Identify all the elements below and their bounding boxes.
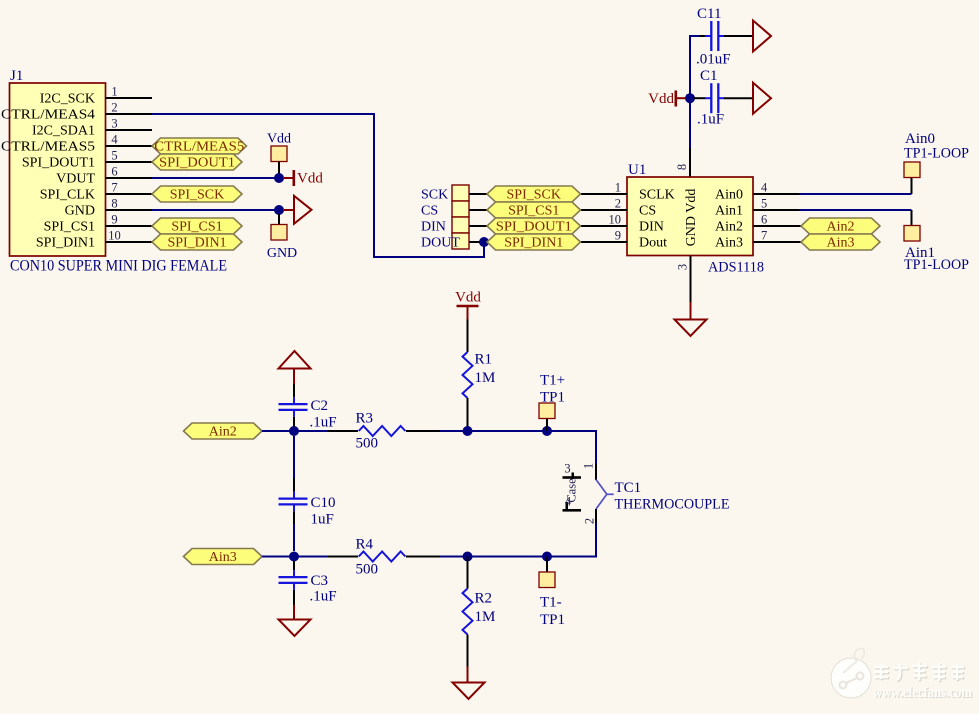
svg-text:U1: U1 — [628, 162, 646, 178]
svg-text:SPI_DOUT1: SPI_DOUT1 — [22, 156, 95, 171]
port SPI_DOUT1 (J1) — [152, 154, 242, 171]
svg-text:R4: R4 — [356, 537, 374, 553]
svg-text:Ain2: Ain2 — [715, 220, 743, 235]
svg-text:1M: 1M — [475, 609, 496, 625]
svg-text:3: 3 — [111, 117, 117, 131]
svg-text:DIN: DIN — [421, 220, 446, 235]
svg-text:4: 4 — [111, 133, 118, 147]
port SPI_SCK (U1) — [487, 186, 581, 203]
J1 pin 7 SPI_CLK — [40, 181, 152, 203]
capacitor C10 — [279, 436, 336, 551]
svg-text:1M: 1M — [475, 370, 496, 386]
svg-text:.1uF: .1uF — [697, 112, 724, 128]
U1 pin 9 Dout — [581, 229, 667, 251]
svg-text:9: 9 — [615, 229, 621, 243]
svg-text:SPI_CS1: SPI_CS1 — [171, 220, 222, 235]
svg-text:GND: GND — [267, 246, 297, 261]
U1 pin 4 Ain0 — [715, 181, 799, 203]
svg-text:THERMOCOUPLE: THERMOCOUPLE — [615, 497, 730, 513]
header pad DIN — [421, 217, 487, 235]
svg-text:SPI_DIN1: SPI_DIN1 — [504, 236, 563, 251]
svg-text:DIN: DIN — [639, 220, 664, 235]
capacitor C1 — [694, 68, 753, 128]
svg-text:SPI_DIN1: SPI_DIN1 — [36, 236, 95, 251]
connector J1 designator — [10, 68, 23, 84]
U1 pin 3 GND — [676, 256, 691, 320]
svg-text:4: 4 — [565, 495, 572, 509]
svg-text:SCLK: SCLK — [639, 188, 675, 203]
wire U1 pin5 to TP Ain1 — [799, 210, 912, 226]
wire Ain3 row — [262, 556, 597, 558]
port SPI_DIN1 (U1) — [487, 234, 581, 251]
power port triangle at C11 — [753, 21, 771, 52]
svg-text:DOUT: DOUT — [421, 236, 460, 251]
J1 pin 1 I2C_SCK — [40, 85, 152, 107]
svg-text:I2C_SCK: I2C_SCK — [40, 92, 95, 107]
svg-text:Ain3: Ain3 — [827, 236, 855, 251]
resistor R2 1M — [463, 557, 496, 683]
header pad SCK — [421, 185, 487, 203]
svg-text:Vdd: Vdd — [648, 91, 674, 107]
svg-text:Ain3: Ain3 — [715, 236, 743, 251]
resistor R4 500 — [328, 537, 440, 578]
port Ain3 (left) — [184, 549, 263, 566]
svg-text:R2: R2 — [475, 591, 493, 607]
svg-text:2: 2 — [111, 101, 117, 115]
svg-text:3: 3 — [676, 264, 690, 270]
port SPI_DOUT1 (U1) — [487, 218, 581, 235]
svg-text:500: 500 — [356, 562, 379, 578]
U1 pin 7 Ain3 — [715, 229, 801, 251]
power port triangle at C1 — [753, 83, 771, 114]
svg-text:CS: CS — [639, 204, 656, 219]
svg-text:500: 500 — [356, 436, 379, 452]
ground symbol at R2 — [453, 683, 485, 700]
svg-text:10: 10 — [609, 213, 622, 227]
power port Vdd bar (J1) — [283, 170, 323, 187]
test point GND pad — [267, 214, 297, 261]
svg-text:Dout: Dout — [639, 236, 667, 251]
svg-text:SPI_SCK: SPI_SCK — [507, 188, 561, 203]
svg-text:SPI_CLK: SPI_CLK — [40, 188, 95, 203]
port SPI_CS1 (J1) — [152, 218, 242, 235]
svg-text:CON10 SUPER MINI DIG FEMALE: CON10 SUPER MINI DIG FEMALE — [10, 258, 227, 275]
junction T1+/Ain2 row — [542, 426, 552, 436]
svg-text:C3: C3 — [311, 573, 329, 589]
svg-text:Ain2: Ain2 — [827, 220, 855, 235]
junction node Vdd — [274, 173, 284, 183]
svg-text:Ain0: Ain0 — [715, 188, 743, 203]
test point T1+ TP1 — [539, 373, 565, 432]
wire Vdd vertical (C11 to U1 pin8) — [690, 36, 700, 148]
test point Ain1 TP1-LOOP — [904, 226, 969, 274]
J1 pin 3 I2C_SDA1 — [32, 117, 152, 139]
U1 pin 10 DIN — [581, 213, 664, 235]
port Ain2 (right) — [801, 218, 880, 235]
wire TC1 pin2 to Ain3 row — [595, 523, 597, 557]
svg-text:SPI_CS1: SPI_CS1 — [44, 220, 95, 235]
ground symbol at U1 pin3 — [675, 320, 707, 337]
J1 pin 5 SPI_DOUT1 — [22, 149, 152, 171]
J1 pin 4 CTRL/MEAS5 — [1, 133, 152, 155]
svg-text:7: 7 — [111, 181, 117, 195]
wire Ain2 row to TC1 pin1 — [596, 431, 597, 464]
svg-text:SCK: SCK — [421, 188, 448, 203]
svg-text:C2: C2 — [311, 398, 329, 414]
svg-text:.1uF: .1uF — [310, 589, 337, 605]
resistor R3 500 — [328, 411, 440, 452]
svg-text:Ain2: Ain2 — [209, 425, 237, 440]
U1 pin 6 Ain2 — [715, 213, 801, 235]
svg-text:1: 1 — [582, 463, 596, 469]
capacitor C11 — [696, 6, 753, 68]
test point Vdd pad — [267, 132, 291, 179]
svg-text:10: 10 — [108, 229, 121, 243]
junction node Vdd at C1 — [685, 93, 695, 103]
svg-text:J1: J1 — [10, 68, 23, 84]
svg-text:5: 5 — [761, 197, 767, 211]
port SPI_SCK (J1) — [152, 186, 242, 203]
svg-text:SPI_DOUT1: SPI_DOUT1 — [159, 156, 235, 171]
svg-text:SPI_DIN1: SPI_DIN1 — [167, 236, 226, 251]
J1 pin 9 SPI_CS1 — [44, 213, 152, 235]
capacitor C3 — [279, 561, 337, 620]
IC U1 designator — [628, 162, 646, 178]
svg-text:.01uF: .01uF — [696, 52, 731, 68]
svg-text:7: 7 — [761, 229, 767, 243]
port Ain3 (right) — [801, 234, 880, 251]
junction DOUT node — [479, 237, 489, 247]
svg-text:TC1: TC1 — [615, 480, 642, 496]
svg-text:TP1-LOOP: TP1-LOOP — [904, 146, 969, 162]
svg-text:T1+: T1+ — [540, 373, 565, 389]
port CTRL/MEAS5 (J1) — [152, 138, 247, 155]
header pad CS — [421, 201, 487, 219]
svg-text:.1uF: .1uF — [310, 415, 337, 431]
svg-text:TP1: TP1 — [540, 612, 565, 628]
U1 pin 1 SCLK — [581, 181, 675, 203]
junction T1-/Ain3 row — [542, 552, 552, 562]
svg-text:C1: C1 — [700, 68, 718, 84]
connector J1 body — [10, 83, 106, 256]
svg-text:TP1-LOOP: TP1-LOOP — [904, 257, 969, 273]
svg-text:CTRL/MEAS4: CTRL/MEAS4 — [1, 108, 95, 123]
svg-text:6: 6 — [761, 213, 767, 227]
J1 pin 10 SPI_DIN1 — [36, 229, 152, 251]
svg-text:Vdd: Vdd — [267, 132, 291, 147]
svg-text:Vdd: Vdd — [455, 290, 481, 306]
svg-text:2: 2 — [615, 197, 621, 211]
svg-text:C11: C11 — [697, 6, 721, 22]
wire J1 pin8 to GND node — [152, 209, 279, 211]
junction Ain3/C3 — [289, 552, 299, 562]
svg-text:2: 2 — [583, 518, 597, 524]
svg-text:GND: GND — [65, 204, 95, 219]
svg-text:3: 3 — [564, 462, 570, 476]
U1 pin 5 Ain1 — [715, 197, 799, 219]
J1 pin 2 CTRL/MEAS4 — [1, 101, 152, 123]
svg-text:R1: R1 — [475, 352, 493, 368]
svg-text:CTRL/MEAS5: CTRL/MEAS5 — [154, 140, 244, 155]
watermark elecfans logo — [831, 649, 972, 702]
power port arrow above C2 — [279, 351, 311, 384]
svg-text:I2C_SDA1: I2C_SDA1 — [32, 124, 95, 139]
wire Ain2 row — [262, 430, 597, 432]
U1 power pin names GND Vdd — [684, 189, 699, 247]
J1 pin 6 VDUT — [56, 165, 152, 187]
wire J1 pin2 to DOUT node — [152, 114, 484, 257]
ground symbol at C3 — [279, 620, 311, 637]
svg-text:9: 9 — [111, 213, 117, 227]
power port GND triangle (J1) — [283, 196, 312, 224]
svg-text:www.elecfans.com: www.elecfans.com — [873, 685, 972, 701]
svg-text:SPI_DOUT1: SPI_DOUT1 — [496, 220, 572, 235]
port SPI_DIN1 (J1) — [152, 234, 242, 251]
svg-text:Ain1: Ain1 — [715, 204, 743, 219]
svg-text:6: 6 — [111, 165, 117, 179]
IC U1 body — [627, 177, 753, 256]
svg-text:Ain3: Ain3 — [209, 550, 237, 565]
svg-text:VDUT: VDUT — [56, 172, 95, 187]
svg-text:8: 8 — [675, 164, 689, 170]
J1 description CON10 SUPER MINI DIG FEMALE — [10, 258, 227, 275]
junction R2/Ain3 row — [463, 552, 473, 562]
svg-text:1: 1 — [111, 85, 117, 99]
port SPI_CS1 (U1) — [487, 202, 581, 219]
header pad DOUT — [421, 233, 487, 251]
svg-text:CTRL/MEAS5: CTRL/MEAS5 — [1, 140, 95, 155]
svg-text:R3: R3 — [356, 411, 374, 427]
svg-text:SPI_SCK: SPI_SCK — [170, 188, 224, 203]
svg-text:4: 4 — [761, 181, 768, 195]
U1 part number ADS1118 — [708, 260, 764, 276]
svg-text:CS: CS — [421, 204, 438, 219]
U1 pin 2 CS — [581, 197, 656, 219]
U1 pin 8 Vdd — [675, 148, 690, 177]
svg-text:C10: C10 — [311, 495, 336, 511]
port Ain2 (left) — [184, 423, 263, 440]
test point T1- TP1 — [539, 557, 565, 629]
wire U1 pin4 to TP Ain0 — [799, 178, 912, 195]
J1 pin 8 GND — [65, 197, 152, 219]
svg-text:5: 5 — [111, 149, 117, 163]
svg-text:1uF: 1uF — [311, 512, 334, 528]
test point Ain0 TP1-LOOP — [904, 131, 969, 178]
svg-text:T1-: T1- — [540, 595, 562, 611]
svg-text:SPI_CS1: SPI_CS1 — [508, 204, 559, 219]
resistor R1 1M — [463, 320, 496, 432]
junction node GND — [274, 205, 284, 215]
svg-text:1: 1 — [615, 181, 621, 195]
power port Vdd bar at C1 — [648, 91, 686, 108]
power port Vdd at R1 — [455, 290, 481, 320]
svg-text:GND Vdd: GND Vdd — [684, 189, 699, 247]
svg-text:ADS1118: ADS1118 — [708, 260, 764, 276]
junction R1/Ain2 row — [463, 426, 473, 436]
thermocouple TC1 — [563, 462, 730, 525]
wire J1 pin6 (VDUT) to Vdd node — [152, 177, 279, 179]
svg-text:Vdd: Vdd — [297, 171, 323, 187]
svg-text:8: 8 — [111, 197, 117, 211]
junction Ain2/C2 — [289, 426, 299, 436]
capacitor C2 — [279, 384, 337, 431]
